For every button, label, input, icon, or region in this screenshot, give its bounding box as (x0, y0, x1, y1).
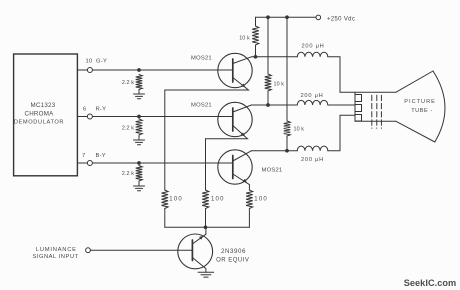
svg-text:2.2 k: 2.2 k (122, 126, 134, 132)
svg-text:200 μH: 200 μH (301, 93, 324, 99)
svg-text:100: 100 (211, 196, 225, 202)
svg-text:10 k: 10 k (239, 36, 250, 42)
svg-text:2N3906: 2N3906 (221, 248, 246, 255)
svg-text:SIGNAL INPUT: SIGNAL INPUT (33, 254, 79, 260)
svg-text:2.2 k: 2.2 k (122, 171, 134, 177)
svg-text:TUBE -: TUBE - (411, 108, 433, 114)
svg-text:2.2 k: 2.2 k (122, 80, 134, 86)
svg-text:10 k: 10 k (294, 127, 305, 133)
svg-text:OR EQUIV: OR EQUIV (216, 257, 249, 263)
svg-text:MOS21: MOS21 (191, 56, 212, 62)
svg-text:PICTURE: PICTURE (404, 99, 436, 105)
svg-text:100: 100 (254, 196, 268, 202)
svg-text:SeekIC.com: SeekIC.com (404, 278, 457, 288)
svg-text:200 μH: 200 μH (301, 157, 324, 163)
svg-text:CHROMA: CHROMA (25, 111, 55, 118)
svg-text:200 μH: 200 μH (302, 43, 325, 49)
svg-text:10: 10 (86, 59, 93, 65)
svg-text:10 k: 10 k (274, 81, 285, 87)
svg-text:MOS21: MOS21 (191, 103, 212, 109)
svg-text:B-Y: B-Y (96, 153, 106, 159)
svg-text:DEMODULATOR: DEMODULATOR (14, 120, 64, 126)
svg-text:G-Y: G-Y (96, 59, 107, 65)
svg-text:MC1323: MC1323 (31, 102, 56, 109)
svg-text:6: 6 (83, 107, 86, 113)
svg-text:MOS21: MOS21 (262, 167, 283, 173)
svg-text:100: 100 (169, 196, 183, 202)
svg-text:+250 Vdc: +250 Vdc (327, 17, 355, 23)
svg-text:7: 7 (82, 153, 85, 159)
svg-text:R-Y: R-Y (96, 107, 107, 113)
svg-text:LUMINANCE: LUMINANCE (36, 247, 77, 253)
